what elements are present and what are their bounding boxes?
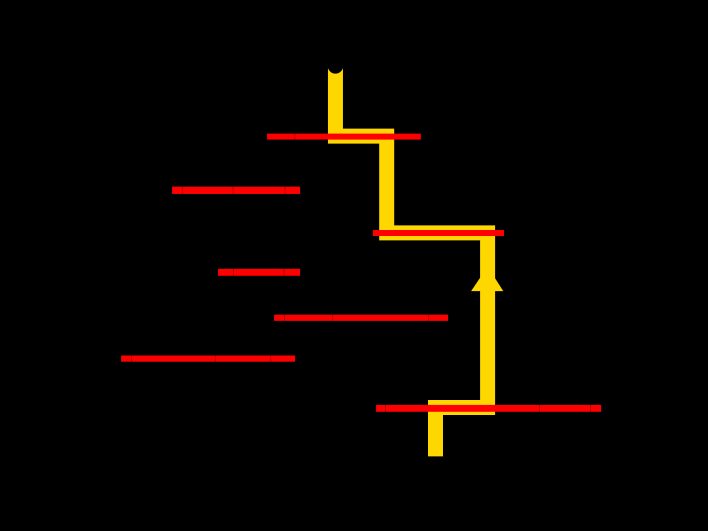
seam 2c <box>284 187 287 194</box>
seam 6c <box>269 356 272 362</box>
red level line 3 <box>373 230 504 236</box>
red level line 6 <box>121 356 295 362</box>
seam 2b <box>232 187 235 194</box>
red level line 1 <box>267 134 421 140</box>
seam 7a <box>384 405 387 412</box>
seam 6b <box>214 356 217 362</box>
start marker (black dot) <box>328 58 344 74</box>
seam 6a <box>130 356 133 362</box>
seam 4a <box>232 269 235 276</box>
red level line 7 <box>376 405 601 412</box>
red level line 5 <box>274 315 448 321</box>
yellow path (order route) <box>335 66 487 457</box>
seam 5b <box>331 315 334 321</box>
red level line 4 <box>218 269 300 276</box>
seam 5c <box>427 315 430 321</box>
seam 7c <box>589 405 592 412</box>
seam 2a <box>181 187 184 194</box>
seam 7b <box>538 405 541 412</box>
red level line 2 <box>172 187 300 194</box>
seam 4b <box>283 269 286 276</box>
yellow arrowhead (pointing up on vertical segment) <box>471 267 503 292</box>
seam 1a <box>293 134 296 140</box>
seam 5a <box>283 315 286 321</box>
